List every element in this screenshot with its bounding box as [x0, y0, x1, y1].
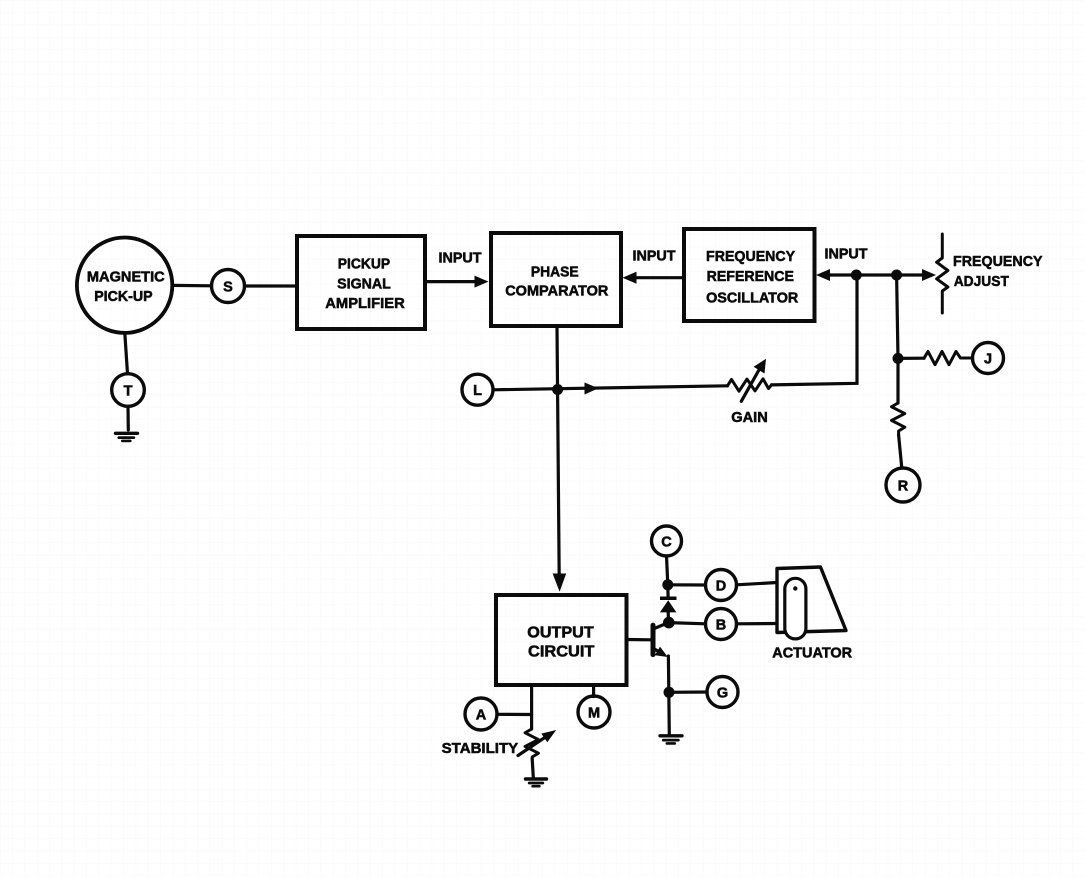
wire terminal D to actuator: [737, 583, 778, 585]
wire oscillator to comparator with arrow: [623, 272, 685, 284]
wire S to amplifier: [245, 284, 297, 287]
resistor (to R): [892, 358, 905, 468]
wire pickup to S: [172, 284, 211, 288]
svg-text:PICK-UP: PICK-UP: [94, 289, 153, 305]
wire into oscillator right side with arrows: [816, 269, 936, 281]
terminal R: [886, 468, 920, 502]
rheostat FREQUENCY ADJUST: [937, 234, 948, 313]
wire collector node up to C: [667, 556, 668, 585]
terminal M: [578, 696, 610, 728]
wire terminal B to actuator: [737, 622, 778, 625]
svg-text:FREQUENCY: FREQUENCY: [706, 248, 795, 265]
svg-text:INPUT: INPUT: [439, 251, 482, 267]
svg-text:INPUT: INPUT: [633, 249, 676, 265]
rheostat GAIN: [728, 359, 772, 402]
ground (below T): [116, 433, 138, 441]
transistor Q1: [653, 623, 668, 657]
node junction (D line): [662, 579, 673, 590]
svg-text:G: G: [717, 686, 728, 702]
label FREQUENCY ADJUST: [953, 253, 1043, 290]
wire B node to terminal B: [669, 623, 706, 624]
wire A to stability stem: [497, 713, 532, 716]
svg-text:C: C: [661, 535, 672, 551]
svg-text:CIRCUIT: CIRCUIT: [528, 644, 595, 661]
rheostat STABILITY: [518, 729, 556, 759]
svg-text:PHASE: PHASE: [531, 264, 579, 281]
actuator symbol: [777, 567, 846, 639]
svg-text:PICKUP: PICKUP: [338, 255, 390, 272]
svg-text:AMPLIFIER: AMPLIFIER: [325, 295, 405, 312]
terminal B: [706, 609, 737, 640]
node junction on oscillator input (J/R branch): [891, 270, 902, 281]
node junction (B line / collector): [663, 617, 675, 629]
wire output circuit bottom to stability rheostat: [530, 685, 533, 729]
wire D node to terminal D: [668, 583, 706, 586]
wire T to ground: [126, 406, 130, 430]
terminal J: [973, 343, 1004, 374]
svg-text:MAGNETIC: MAGNETIC: [87, 269, 165, 285]
wire L to gain line and up to oscillator input, with arrow: [493, 280, 857, 395]
terminal S: [212, 270, 245, 303]
svg-text:R: R: [898, 479, 909, 495]
svg-text:SIGNAL: SIGNAL: [337, 275, 391, 292]
block PHASE COMPARATOR: [491, 233, 621, 326]
wire output circuit to transistor base: [627, 638, 651, 641]
wire amplifier to comparator with arrow: [425, 276, 489, 288]
terminal C: [652, 526, 682, 556]
wire G node to terminal G: [669, 690, 707, 693]
ground (below stability): [526, 779, 547, 786]
svg-text:FREQUENCY: FREQUENCY: [953, 253, 1043, 270]
terminal A: [465, 698, 497, 730]
resistor (to J): [898, 352, 973, 365]
terminal T: [112, 374, 145, 407]
svg-text:COMPARATOR: COMPARATOR: [505, 282, 608, 299]
node junction on oscillator input (gain return): [851, 270, 862, 281]
ground (below emitter): [660, 736, 682, 744]
terminal G: [707, 677, 738, 708]
wire comparator bottom down to output circuit with arrow: [553, 326, 567, 592]
wire pickup bottom to T: [125, 333, 128, 374]
block PICKUP SIGNAL AMPLIFIER: [297, 236, 425, 329]
terminal D: [706, 570, 737, 601]
svg-text:STABILITY: STABILITY: [442, 741, 519, 757]
svg-text:M: M: [588, 706, 600, 722]
block OUTPUT CIRCUIT: [496, 595, 627, 685]
svg-text:ACTUATOR: ACTUATOR: [772, 646, 852, 662]
node junction (comparator output / L line): [552, 384, 563, 395]
svg-text:T: T: [124, 384, 133, 400]
wire J/R branch vertical: [897, 275, 898, 358]
svg-text:OUTPUT: OUTPUT: [527, 625, 594, 642]
svg-text:A: A: [476, 708, 487, 724]
svg-text:ADJUST: ADJUST: [954, 273, 1009, 290]
terminal L: [462, 374, 493, 405]
block FREQUENCY REFERENCE OSCILLATOR: [684, 229, 815, 321]
svg-text:INPUT: INPUT: [825, 246, 868, 262]
svg-text:REFERENCE: REFERENCE: [707, 268, 794, 285]
wire emitter down to ground: [667, 656, 671, 735]
wire stability to ground: [532, 759, 533, 778]
svg-text:S: S: [223, 280, 233, 296]
svg-text:OSCILLATOR: OSCILLATOR: [706, 290, 798, 307]
diode CR1: [660, 585, 677, 623]
node junction (J branch): [893, 353, 904, 364]
svg-text:J: J: [984, 352, 992, 368]
svg-text:GAIN: GAIN: [731, 410, 768, 426]
svg-text:D: D: [716, 579, 726, 595]
svg-text:B: B: [716, 618, 726, 634]
block MAGNETIC PICK-UP: [77, 238, 172, 333]
wire output circuit bottom to M: [592, 685, 595, 696]
node junction (G line): [664, 687, 675, 698]
svg-text:L: L: [473, 383, 482, 399]
